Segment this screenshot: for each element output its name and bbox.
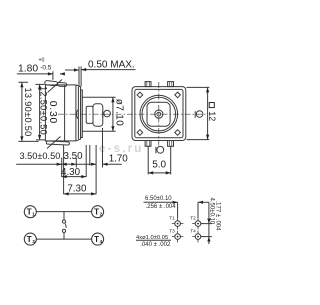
top view: tab bottom-right (168, 141, 174, 147)
dim 4.30: arrows (62, 175, 86, 178)
top view: vertical centerline (158, 82, 160, 146)
schematic: terminal T1 (24, 206, 36, 218)
svg-text:.256 ± .004: .256 ± .004 (146, 204, 177, 210)
svg-text:1: 1 (32, 211, 35, 216)
dim square12: arrows (206, 87, 209, 139)
dim 12.50: extension lines (35, 84, 45, 139)
dim o7.10: extension lines (82, 97, 116, 131)
svg-text:5.0: 5.0 (152, 160, 166, 171)
pcb: hole T4 (195, 234, 201, 240)
dim 0.50 MAX: lines (65, 69, 136, 71)
schematic: wire T1-T2 (36, 211, 92, 213)
dim 13.90: arrows (20, 82, 23, 141)
svg-text:0.50 MAX.: 0.50 MAX. (88, 60, 135, 71)
svg-text:T1: T1 (169, 216, 175, 222)
pcb dim 4x1.0: fraction bar (136, 239, 171, 241)
side view: top and bottom edge connectors (76, 85, 79, 140)
svg-text:3.50: 3.50 (64, 151, 84, 162)
dim square12: extension lines (187, 87, 210, 139)
dim 1.80: extension bar (52, 71, 54, 80)
schematic: lower contact (62, 229, 65, 232)
schematic: wire to upper contact (63, 212, 65, 220)
dim 4.30: line (62, 176, 86, 178)
dim 0.50 MAX: extension bars (79, 67, 81, 87)
dim 7.30: line (64, 193, 97, 195)
side view: cover strip (78, 87, 80, 140)
leader for 0.30 top (48, 80, 63, 93)
schematic: terminal T3 (24, 233, 36, 245)
dim 13.90: dimension line (21, 82, 23, 141)
dim 12.50: dimension line (39, 84, 41, 139)
side view: button head (93, 104, 103, 126)
pcb: hole T3 (175, 234, 181, 240)
svg-text:T4: T4 (190, 229, 196, 235)
dim 5.0: extension lines (148, 147, 171, 175)
dim 3.50+-0.50: line (16, 163, 62, 165)
top view: inner square (135, 89, 183, 137)
pcb dim 4.50: arrows (207, 219, 210, 242)
top view: outer square (132, 87, 186, 141)
centerline symbol below top view (156, 146, 164, 153)
top view: rivet top-right (175, 92, 181, 98)
top view: center rounded square (147, 102, 170, 126)
dim 1.80: dimension line (17, 73, 64, 75)
side view: top lead loop A (45, 80, 58, 86)
svg-text:4.50±0.10: 4.50±0.10 (208, 198, 214, 225)
svg-text:2: 2 (100, 211, 103, 216)
dim 7.30: arrows (64, 192, 97, 195)
pcb dim 6.50: dimension line (144, 201, 209, 203)
dim 5.0: dimension line (148, 172, 171, 174)
top view: rivet top-left (137, 92, 143, 98)
side view: body internal edge (64, 85, 66, 141)
label square 12 (207, 103, 217, 122)
top view: outer circle (140, 95, 178, 133)
side view: flange disc edge (81, 90, 83, 138)
svg-text:4.30: 4.30 (61, 167, 81, 178)
svg-text:+0: +0 (39, 58, 45, 64)
dim 3.50: line with inside arrows (62, 163, 77, 165)
schematic: terminal T4 (92, 233, 104, 245)
svg-text:1.80: 1.80 (18, 64, 38, 75)
dim 3.50+-0.50: arrow (57, 163, 62, 166)
schematic: terminal T2 (92, 206, 104, 218)
pcb dim 6.50: vertical leaders (178, 202, 198, 218)
svg-text:13.90±0.50: 13.90±0.50 (23, 88, 33, 137)
top view: tab bottom-left (145, 141, 151, 147)
svg-text:6.50±0.10: 6.50±0.10 (145, 196, 172, 202)
dim o7.10: dimension line (112, 97, 114, 131)
dim 1.80: arrows (48, 72, 65, 75)
svg-text:0.30: 0.30 (47, 101, 58, 124)
side view: switch body (45, 85, 76, 141)
svg-text:3: 3 (32, 239, 35, 244)
top view: tab top-right (168, 82, 174, 87)
dim 1.70: arrows (91, 163, 107, 166)
svg-text:T2: T2 (190, 216, 196, 222)
svg-text:T: T (94, 235, 99, 244)
bottom dims: extension verticals (62, 128, 103, 194)
top view: tab top-left (145, 82, 151, 87)
top view: rivet bottom-right (175, 130, 181, 136)
pcb: hole T1 (175, 221, 181, 227)
top view: center ring outer (155, 110, 163, 118)
dim o7.10: arrows (111, 97, 114, 131)
side view: button neck (86, 106, 93, 123)
schematic: wire T3-T4 (36, 238, 92, 240)
side view: top lead loop B (57, 82, 67, 86)
schematic: actuator stroke (65, 224, 66, 228)
centerline symbol right of top view (195, 111, 203, 118)
svg-text:4xø1.0±0.05: 4xø1.0±0.05 (136, 235, 168, 241)
dim 0.50 MAX: arrows (74, 68, 86, 72)
schematic: wire from lower contact (63, 233, 65, 240)
top view: center ring inner (157, 112, 161, 116)
svg-text:T3: T3 (169, 229, 175, 235)
svg-text:1.70: 1.70 (109, 153, 129, 164)
top view: inner circle (142, 97, 176, 131)
leader for 0.30 bottom (47, 137, 61, 149)
svg-text:T: T (94, 208, 99, 217)
svg-text:.040 ± .002: .040 ± .002 (140, 242, 171, 248)
dim 13.90: extension lines (18, 82, 38, 141)
svg-text:T: T (27, 208, 32, 217)
svg-text:3.50±0.50: 3.50±0.50 (20, 151, 61, 161)
svg-text:ø7.10: ø7.10 (113, 99, 124, 126)
pcb dim 6.50: arrows (173, 201, 203, 204)
svg-text:.177 ± .004: .177 ± .004 (215, 201, 221, 232)
centerline symbol side view (103, 110, 111, 117)
pcb dim 4.50: ticks (201, 224, 212, 237)
dim 1.70: lines (76, 163, 122, 165)
dim 12.50: arrows (38, 84, 41, 139)
schematic: upper contact (62, 220, 65, 223)
top view: rivet bottom-left (137, 130, 143, 136)
watermark (99, 143, 144, 155)
svg-text:-0.5: -0.5 (40, 64, 52, 71)
svg-text:4: 4 (100, 239, 103, 244)
svg-text:12: 12 (207, 111, 217, 121)
dim square12: dimension line (207, 87, 209, 139)
horizontal centerline (58, 113, 206, 115)
svg-text:T: T (27, 235, 32, 244)
side view: bottom lead (46, 141, 69, 145)
pcb: hole T2 (195, 221, 201, 227)
svg-text:7.30: 7.30 (67, 184, 87, 195)
pcb dim 4.50: dimension line (208, 202, 210, 244)
side view: strip bump (77, 110, 79, 119)
dim 5.0: arrows (148, 171, 171, 174)
